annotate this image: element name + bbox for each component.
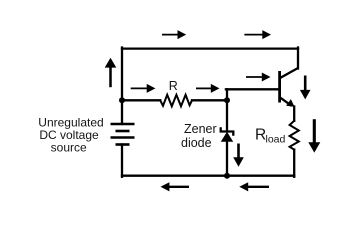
current arrow right (base wire) [246,73,271,82]
wire left vertical [121,48,123,125]
wire base horizontal [226,88,280,90]
svg-text:source: source [51,141,87,155]
current arrow left (bottom wire, right) [239,182,269,191]
battery long plate 2 [111,136,135,139]
transistor collector diagonal [281,68,299,78]
current arrow right (top wire, left) [162,30,186,39]
battery long plate 1 [111,123,135,126]
wire resistor branch left [122,99,160,101]
label Rload [255,127,286,146]
transistor base bar [278,71,281,103]
transistor emitter diagonal [281,98,292,106]
wire load bottom [293,150,295,177]
wire resistor branch right [192,99,227,101]
node junction left (resistor/battery) [119,97,125,103]
label Unregulated DC voltage source [38,116,103,155]
svg-text:load: load [266,133,286,145]
battery short plate 1 [116,130,130,133]
resistor Rload [290,121,299,150]
current arrow right (before R) [131,84,156,93]
wire collector vertical [297,48,299,69]
current arrow left (bottom wire, left) [161,182,190,191]
current arrow right (after R) [196,84,220,93]
current arrow up (left wire) [105,58,117,87]
zener cathode bar with bent ends [221,127,234,135]
current arrow down (load branch) [308,119,320,152]
wire zener branch lower [226,142,228,177]
wire zener branch upper [226,100,228,130]
wire node step vertical [226,89,228,100]
svg-text:R: R [169,79,178,93]
current arrow down (zener branch) [233,144,244,167]
transistor emitter arrowhead [286,99,294,107]
wire bottom horizontal [122,175,294,177]
svg-text:diode: diode [181,136,212,150]
zener triangle [221,132,233,142]
battery short plate 2 [116,143,130,146]
wire battery bottom stub [121,145,123,177]
svg-text:Zener: Zener [184,122,217,136]
label Zener diode [181,122,217,150]
node junction zener top [224,97,230,103]
current arrow right (top wire, right) [244,30,271,39]
node junction zener bottom [224,173,230,179]
wire emitter vertical [293,107,295,121]
current arrow down (collector/emitter) [300,76,311,100]
resistor R [160,95,192,107]
battery B1 (unregulated DC source) [111,124,135,145]
zener diode D1 [221,127,234,142]
wire top horizontal [122,47,298,49]
transistor Q1 [280,68,298,107]
